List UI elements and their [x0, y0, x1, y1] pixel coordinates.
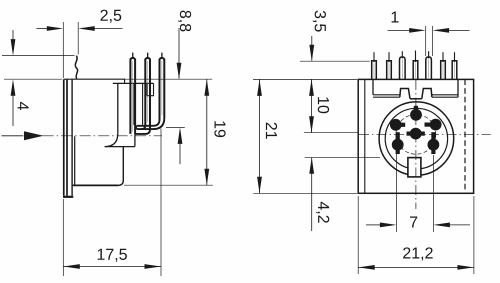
body rectangle — [358, 79, 473, 193]
body front edge — [71, 79, 73, 196]
pins top level line — [2, 55, 75, 57]
left tab trapezoid — [400, 89, 410, 99]
pin 3 upper-right — [425, 119, 442, 131]
terminal 2 — [387, 52, 392, 79]
keyway slot — [408, 158, 421, 177]
terminal 7 — [452, 52, 457, 79]
terminal 4 — [413, 51, 418, 80]
dim 8,8 lower arrow — [178, 127, 183, 164]
top-of-body extension line to the right — [125, 78, 213, 80]
keyway-top extension line for 4,2 — [305, 156, 380, 158]
break squiggle — [75, 56, 77, 80]
dim 10 lower reference line — [304, 132, 358, 134]
body bottom — [73, 184, 118, 186]
pin 2 upper-left — [390, 119, 405, 131]
label 1 — [392, 12, 399, 23]
pin1 inner line — [132, 61, 134, 132]
label 17,5 — [98, 249, 127, 262]
flange foot — [63, 196, 73, 198]
top-of-body extension line to the left — [253, 78, 357, 80]
dim 21,2 extensions — [357, 196, 359, 274]
left view horizontal centerline — [2, 135, 24, 137]
pin horizontal end cap — [136, 126, 138, 129]
dim 10 line — [309, 79, 314, 132]
dim 1 right arrow — [433, 28, 470, 33]
dim 17,5 line with arrows — [63, 264, 161, 269]
housing bottom — [105, 146, 135, 148]
label 21,2 — [403, 247, 433, 260]
label 8,8 — [178, 11, 191, 32]
terminal 3 (dome) — [400, 51, 406, 79]
pin 1 top — [410, 106, 422, 121]
pin2 tip stub — [147, 53, 149, 58]
dim 17,5 left extension — [62, 199, 64, 276]
centerline dash-dot — [43, 135, 162, 137]
dim 7 extensions — [395, 152, 397, 232]
terminal-top extension line for 3,5 — [300, 60, 370, 62]
dim 17,5 right extension — [160, 129, 162, 277]
housing front edge — [134, 134, 136, 147]
label 21 — [266, 123, 277, 139]
label 7 — [410, 217, 417, 228]
dim 1 extensions — [425, 26, 427, 56]
outer circle — [379, 102, 454, 175]
dim 7 right arrow — [433, 223, 470, 228]
dim 4 upper arrow — [11, 30, 16, 56]
dim 21,2 line with arrows — [358, 265, 474, 270]
pin 5 lower-left — [392, 132, 404, 154]
dim 2,5 right arrow — [78, 26, 122, 31]
label 4 — [18, 102, 29, 110]
dashed pitch circle — [396, 114, 436, 154]
dim 19 line — [206, 79, 208, 185]
dim 8,8 lower reference line (pin row axis) — [166, 126, 185, 128]
housing inner vertical 1 — [133, 83, 135, 125]
label 2,5 — [100, 10, 121, 23]
shroud right edge — [457, 79, 459, 97]
terminal 5 (dome) — [426, 51, 432, 79]
inner vertical below centerline — [74, 136, 76, 184]
shroud shelf lines right — [432, 94, 458, 96]
rear housing top — [113, 82, 154, 84]
small box on housing — [147, 83, 154, 95]
body lower-right corner — [118, 147, 123, 186]
label 19 — [214, 121, 225, 137]
inner left vertical — [364, 79, 366, 193]
dim 2,5 right extension — [77, 22, 79, 55]
terminal 1 — [372, 52, 377, 79]
dim 2,5 left extension — [62, 22, 64, 78]
pin3 vertical walls — [160, 58, 165, 120]
pin2 inner line — [147, 61, 149, 122]
housing curve to bottom — [105, 134, 118, 147]
flange top extension to the left — [4, 78, 62, 80]
pin 4 center — [407, 128, 425, 140]
dim 21 line — [257, 79, 262, 193]
dim 7 left arrow — [366, 223, 397, 228]
bottom-of-body extension line to the left — [253, 192, 357, 194]
dim 19 bottom arrow — [204, 169, 209, 186]
dim 19 top arrow — [204, 79, 209, 96]
dim 2,5 left arrow — [37, 26, 64, 31]
pin1 (left) vertical walls — [130, 58, 135, 134]
pin1 tip stub — [132, 53, 134, 58]
pin3 bend to upper horizontal — [137, 120, 160, 126]
dim 3,5 — [309, 36, 314, 61]
pin3 inner line — [161, 61, 163, 115]
bottom-of-body extension line to the right — [124, 184, 213, 186]
housing verticals — [117, 83, 119, 133]
terminal 6 — [441, 52, 446, 79]
front view horizontal centerline — [359, 133, 491, 135]
inner circle — [385, 108, 447, 169]
hidden right vertical (dashed) — [464, 79, 466, 193]
dim 8,8 line and arrow — [177, 28, 182, 79]
center notch bottom — [410, 98, 422, 100]
front view vertical centerline — [415, 80, 417, 209]
shroud opening left edge — [372, 79, 374, 94]
pin 6 lower-right — [428, 132, 440, 154]
label 10 — [318, 97, 329, 113]
label 3,5 — [313, 11, 326, 32]
pin3 tip stub — [161, 53, 163, 58]
right tab trapezoid — [422, 89, 432, 99]
housing inner vertical 2 — [142, 83, 144, 125]
pin2 bend to lower horizontal — [142, 125, 146, 129]
centerline big arrow — [24, 131, 44, 140]
dim 4,2 — [309, 157, 314, 231]
shroud shelf lines left — [373, 94, 400, 96]
body top — [64, 79, 125, 83]
label 4,2 — [316, 202, 329, 223]
dim 1 left arrow — [388, 28, 426, 33]
pin2 vertical walls — [145, 58, 150, 129]
flange plate — [64, 79, 67, 196]
dim 4 lower arrow — [11, 79, 16, 126]
